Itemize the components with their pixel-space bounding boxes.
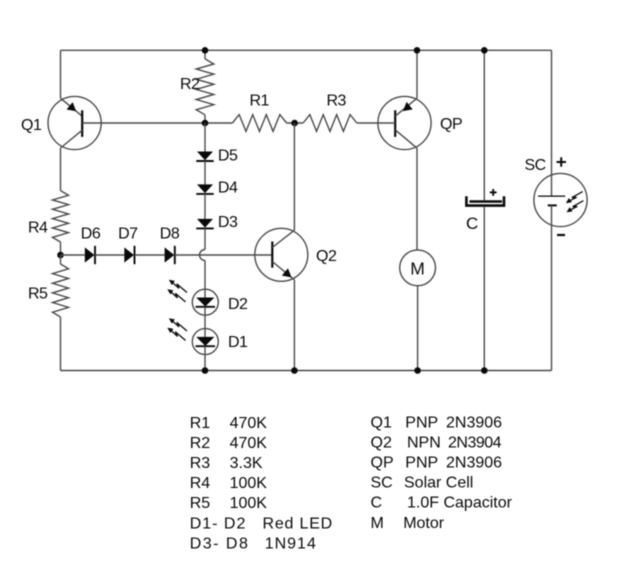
svg-text:M: M	[371, 515, 384, 532]
svg-text:D7: D7	[118, 225, 138, 242]
svg-text:R1: R1	[250, 93, 270, 110]
svg-text:SC: SC	[525, 157, 546, 174]
svg-text:C: C	[466, 214, 478, 233]
svg-text:R4: R4	[190, 475, 211, 492]
svg-text:2N3904: 2N3904	[448, 434, 502, 451]
svg-text:R5: R5	[28, 286, 48, 303]
svg-text:Red LED: Red LED	[263, 515, 334, 532]
svg-text:2N3906: 2N3906	[446, 414, 502, 431]
svg-text:R4: R4	[28, 219, 48, 236]
svg-text:3.3K: 3.3K	[230, 455, 263, 472]
svg-text:470K: 470K	[230, 435, 268, 452]
svg-text:SC: SC	[371, 475, 393, 492]
svg-text:Q2: Q2	[316, 248, 337, 265]
svg-text:D3: D3	[218, 214, 238, 231]
svg-text:100K: 100K	[230, 495, 268, 512]
svg-text:100K: 100K	[230, 475, 268, 492]
svg-text:D1- D2: D1- D2	[190, 515, 247, 532]
svg-text:D4: D4	[218, 179, 238, 196]
svg-text:2N3906: 2N3906	[446, 455, 502, 472]
svg-text:470K: 470K	[230, 415, 268, 432]
svg-text:D2: D2	[228, 296, 248, 313]
svg-text:R1: R1	[190, 415, 211, 432]
svg-text:Q1: Q1	[21, 117, 42, 134]
svg-text:C: C	[371, 495, 383, 512]
svg-text:R3: R3	[190, 455, 211, 472]
svg-text:Q1: Q1	[371, 414, 392, 431]
svg-text:QP: QP	[371, 455, 394, 472]
svg-text:D8: D8	[160, 225, 180, 242]
svg-text:R5: R5	[190, 495, 211, 512]
svg-text:Motor: Motor	[403, 515, 445, 532]
svg-text:R2: R2	[180, 76, 200, 93]
svg-text:PNP: PNP	[405, 455, 438, 472]
svg-text:R3: R3	[327, 93, 347, 110]
svg-text:D1: D1	[228, 334, 248, 351]
svg-text:QP: QP	[440, 116, 462, 133]
svg-text:1.0F Capacitor: 1.0F Capacitor	[407, 495, 513, 512]
svg-text:M: M	[410, 258, 425, 278]
svg-text:1N914: 1N914	[265, 535, 317, 552]
svg-text:Solar Cell: Solar Cell	[404, 475, 473, 492]
svg-text:PNP: PNP	[405, 414, 438, 431]
svg-text:D6: D6	[81, 225, 101, 242]
svg-text:R2: R2	[190, 435, 211, 452]
svg-text:NPN: NPN	[407, 434, 441, 451]
svg-text:Q2: Q2	[371, 434, 392, 451]
svg-text:D3- D8: D3- D8	[190, 535, 250, 552]
svg-text:D5: D5	[218, 148, 238, 165]
